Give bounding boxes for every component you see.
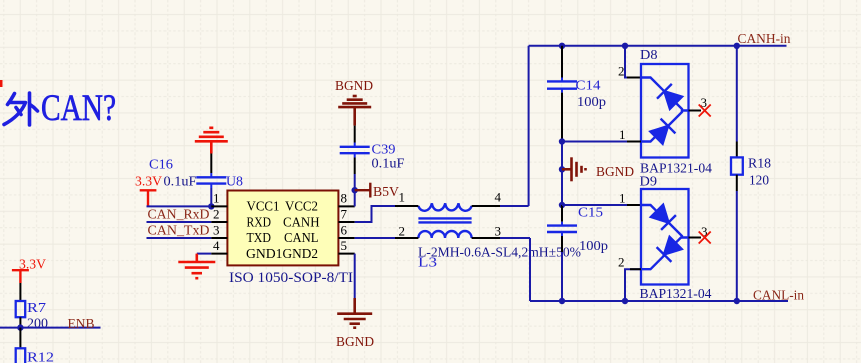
svg-text:VCC2: VCC2 xyxy=(285,200,318,215)
wire CANL (pin6 to L3 pin2) xyxy=(355,237,395,239)
svg-text:R7: R7 xyxy=(27,301,46,316)
junction xyxy=(734,43,740,49)
svg-text:CAN_TxD: CAN_TxD xyxy=(148,224,210,239)
svg-text:RXD: RXD xyxy=(247,215,272,230)
L3 pin 3 xyxy=(472,237,500,239)
power port BGND (above C39) xyxy=(338,96,371,126)
wire xyxy=(561,93,563,142)
wire (pin5 down) xyxy=(354,254,356,298)
wire xyxy=(354,158,356,175)
junction xyxy=(17,324,23,330)
capacitor C39 xyxy=(340,143,370,158)
svg-text:ENB: ENB xyxy=(68,317,95,332)
svg-text:BAP1321-04: BAP1321-04 xyxy=(640,287,712,302)
svg-text:4: 4 xyxy=(495,190,502,205)
L3 pin 2 xyxy=(395,237,418,239)
no-ERC cross at D8 pin 3 xyxy=(699,105,711,117)
wire xyxy=(354,174,356,206)
resistor R7 xyxy=(16,301,26,317)
svg-text:1: 1 xyxy=(399,190,406,205)
junction xyxy=(559,298,565,304)
junction xyxy=(622,298,628,304)
svg-text:120: 120 xyxy=(749,174,769,189)
ground (red, above C16) xyxy=(195,128,228,154)
svg-text:VCC1: VCC1 xyxy=(247,200,280,215)
wire (L3 pin4 to CANH rail) xyxy=(500,205,529,207)
red clipped mark at left edge xyxy=(0,80,3,87)
wire xyxy=(354,126,356,143)
svg-text:1: 1 xyxy=(213,191,220,206)
capacitor C15 xyxy=(547,222,577,236)
U8 pin names xyxy=(246,200,320,262)
wire CANH (pin7 to L3 pin1) xyxy=(355,206,395,222)
svg-text:7: 7 xyxy=(341,207,348,222)
svg-text:TXD: TXD xyxy=(247,231,272,246)
power port 3.3V (at U8 pin 1) xyxy=(140,190,157,206)
svg-text:L3: L3 xyxy=(418,256,437,271)
power ground BGND (middle) xyxy=(562,157,586,181)
svg-text:C39: C39 xyxy=(372,143,396,158)
capacitor C14 xyxy=(547,78,577,93)
svg-text:BGND: BGND xyxy=(335,79,373,94)
wire CAN_RxD xyxy=(147,221,212,223)
junction xyxy=(559,166,565,172)
svg-text:R12: R12 xyxy=(27,351,54,363)
wire CAN_TxD xyxy=(147,237,212,239)
ground (red, U8 pin 4) xyxy=(178,254,215,279)
D8 internal diodes xyxy=(641,78,689,144)
D9 internal diodes xyxy=(641,205,689,269)
wire xyxy=(19,317,21,327)
wire xyxy=(561,205,563,222)
junction xyxy=(622,43,628,49)
U8 pin 5 xyxy=(338,253,354,255)
wire (L3 pin3 to CANL vertical) xyxy=(500,237,530,239)
svg-text:CANL-in: CANL-in xyxy=(753,289,804,304)
svg-text:3.3V: 3.3V xyxy=(135,175,162,190)
wire xyxy=(561,252,563,301)
U8 pin 6 xyxy=(338,237,354,239)
svg-text:CANH-in: CANH-in xyxy=(738,32,791,47)
wire CANL vertical xyxy=(529,238,531,301)
svg-text:CANL: CANL xyxy=(284,231,319,246)
svg-text:C15: C15 xyxy=(578,206,603,221)
svg-text:200: 200 xyxy=(27,317,48,332)
wire (rail to R18) xyxy=(736,46,738,142)
svg-text:CAN_RxD: CAN_RxD xyxy=(148,208,210,223)
wire xyxy=(210,154,212,174)
diode network D9 box xyxy=(641,189,689,285)
op IC U8 body xyxy=(227,191,338,266)
wire xyxy=(561,46,563,78)
svg-text:5: 5 xyxy=(341,238,348,253)
junction xyxy=(559,43,565,49)
D8 pin 3 xyxy=(689,110,702,112)
svg-text:1: 1 xyxy=(619,127,626,142)
wire (rail to D9 pin1) xyxy=(562,204,641,206)
U8 pin 8 xyxy=(338,205,354,207)
U8 pin 1 xyxy=(211,205,227,207)
svg-text:B5V: B5V xyxy=(373,185,399,200)
svg-text:GND2: GND2 xyxy=(283,247,319,262)
svg-text:2: 2 xyxy=(399,224,406,239)
svg-text:ISO 1050-SOP-8/TI: ISO 1050-SOP-8/TI xyxy=(229,270,353,286)
junction xyxy=(559,202,565,208)
D8 pin 2 stub xyxy=(627,77,641,79)
svg-text:0.1uF: 0.1uF xyxy=(372,157,405,172)
svg-text:3: 3 xyxy=(213,223,220,238)
inductor L3 (common mode choke) xyxy=(418,203,471,238)
D9 pin 1 stub xyxy=(627,204,641,206)
svg-text:2: 2 xyxy=(618,64,625,79)
svg-text:D8: D8 xyxy=(640,48,658,63)
svg-text:D9: D9 xyxy=(640,175,658,190)
junction xyxy=(559,138,565,144)
title text 外CAN? xyxy=(4,93,38,125)
wire xyxy=(561,142,563,206)
svg-text:C14: C14 xyxy=(576,79,601,94)
wire (rail to D8 pin2) xyxy=(625,46,641,78)
svg-text:4: 4 xyxy=(213,238,220,253)
svg-text:6: 6 xyxy=(341,223,348,238)
wire xyxy=(210,188,212,206)
svg-text:1: 1 xyxy=(619,191,626,206)
power port B5V xyxy=(355,183,371,198)
wire (R18 to bottom rail) xyxy=(736,175,738,191)
svg-text:2: 2 xyxy=(618,255,625,270)
junction xyxy=(352,187,358,193)
svg-text:CAN?: CAN? xyxy=(41,88,116,129)
svg-text:U8: U8 xyxy=(226,175,243,190)
U8 pin 3 xyxy=(211,237,227,239)
D8 pin 1 xyxy=(562,141,641,143)
wire xyxy=(19,328,21,349)
power port 3.3V (bottom left) xyxy=(12,270,29,283)
svg-text:CANH: CANH xyxy=(283,215,320,230)
svg-text:BGND: BGND xyxy=(596,165,634,180)
svg-text:3.3V: 3.3V xyxy=(19,258,46,273)
svg-text:3: 3 xyxy=(495,224,502,239)
svg-text:0.1uF: 0.1uF xyxy=(164,175,197,190)
svg-text:C16: C16 xyxy=(149,158,173,173)
svg-text:8: 8 xyxy=(341,191,348,206)
L3 pin 1 xyxy=(395,205,418,207)
svg-text:BGND: BGND xyxy=(336,335,374,350)
svg-text:L-2MH-0.6A-SL4,2mH±50%: L-2MH-0.6A-SL4,2mH±50% xyxy=(418,246,581,261)
D9 pin 3 xyxy=(689,237,702,239)
U8 pin 4 xyxy=(211,253,227,255)
wire (pin4 to ground) xyxy=(197,253,212,255)
wire CANL bottom rail xyxy=(530,300,788,302)
power ground BGND (below U8) xyxy=(337,298,372,328)
junction xyxy=(208,203,214,209)
diode network D8 box xyxy=(641,64,689,158)
wire xyxy=(19,283,21,301)
svg-text:R18: R18 xyxy=(748,157,771,172)
wire xyxy=(561,236,563,252)
resistor R18 xyxy=(731,157,743,174)
U8 pin 7 xyxy=(338,221,354,223)
U8 pin 2 xyxy=(211,221,227,223)
wire (3.3V to pin1) xyxy=(147,205,212,207)
wire CANH top rail xyxy=(529,45,787,47)
D9 pin 2 xyxy=(625,269,641,301)
L3 pin 4 xyxy=(472,205,500,207)
resistor R12 xyxy=(16,348,26,363)
no-ERC cross at D9 pin 3 xyxy=(699,232,711,244)
svg-text:100p: 100p xyxy=(579,239,608,254)
capacitor C16 xyxy=(196,173,226,188)
svg-text:100p: 100p xyxy=(577,95,606,110)
svg-text:GND1: GND1 xyxy=(246,247,283,262)
junction xyxy=(734,298,740,304)
wire ENB xyxy=(0,327,101,329)
svg-text:2: 2 xyxy=(213,207,220,222)
wire CANH vertical xyxy=(528,46,530,206)
